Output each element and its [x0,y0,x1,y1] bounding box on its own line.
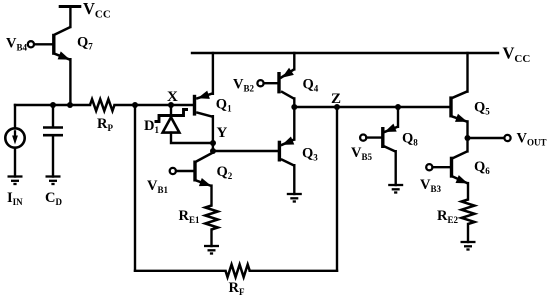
transistor Q4 (PNP) [277,72,280,93]
wire: Q6 emitter to R_E2 [467,183,469,199]
ground (Q8) [388,184,403,186]
ground (I_IN) [8,175,23,177]
node X [168,102,174,108]
transistor Q5 (NPN) [449,96,452,117]
transistor Q8 (PNP) [381,127,384,148]
resistor R_F [226,265,250,278]
wire: Q4 emitter to VCC rail [293,53,295,69]
wire: Q1 emitter up to VCC rail [212,53,214,94]
wire: Q6 collector up to output node [466,138,468,151]
wire: Q1 collector down (node Y) [212,116,214,152]
wire: V_B5 to Q8 base [367,136,382,138]
terminal V_B5 [360,135,366,141]
wire: Q7 collector vertical to VCC bar [69,7,71,28]
wire: Q8 collector to ground [395,151,397,185]
current source I_IN [5,128,24,147]
wire: Q8 emitter up to node Z [397,107,399,127]
ground (R_E1) [204,245,219,247]
node: junction Q7 emitter / input wire [67,102,73,108]
wire: output node to V_OUT terminal [468,137,505,139]
diode D1 (Schottky) [170,105,172,114]
node: Z / Q4-Q3 junction [291,104,297,110]
wire: feedback right vertical to node Z [336,107,338,271]
wire: node Y to Q3 base [213,150,279,152]
svg-text:Z: Z [331,91,341,107]
wire: V_B3 to Q6 base [433,166,450,168]
wire: feedback bottom right [250,270,337,272]
terminal V_B3 [426,164,432,170]
ground (C_D) [46,175,61,177]
svg-text:Y: Y [217,125,228,141]
node Y (Q3 base junction) [210,148,216,154]
transistor Q7 (NPN) [52,34,55,55]
wire: V_B1 to Q2 base [176,170,193,172]
wire: feedback bottom left [135,270,226,272]
wire: R_P to node X to Q1 base [115,104,195,106]
wire: Q5 collector to VCC rail [466,53,468,92]
node Y (D1 junction) [210,140,216,146]
wire: input node horizontal [15,104,90,106]
transistor Q2 (NPN) [193,161,196,182]
terminal V_B4 [28,41,34,47]
wire: D1 anode to node Y [171,133,213,143]
transistor Q6 (NPN) [450,157,453,178]
transistor Q3 (PNP) [278,141,281,162]
node: feedback junction [132,102,138,108]
resistor R_E1 [205,206,218,230]
wire: Q3 emitter up to node Z [293,107,295,140]
wire: Q4 collector to node Z [293,98,295,107]
wire: Q5 emitter to output node [466,121,468,138]
svg-text:X: X [167,89,178,105]
transistor Q1 (PNP) [193,95,196,116]
wire: input node left drop to I_IN [14,105,16,128]
wire: V_B4 to Q7 base [34,43,52,45]
terminal V_B1 [170,168,176,174]
wire: node Z horizontal to Q5 base [294,106,451,108]
wire: V_B2 to Q4 base [264,82,278,84]
ground (Q3) [287,193,302,195]
wire: feedback left vertical [134,105,136,271]
capacitor C_D [52,105,54,127]
terminal V_B2 [257,80,263,86]
wire: Q2 emitter to R_E1 [210,186,212,206]
wire: VCC rail (main) [192,52,498,54]
wire: Q7 emitter down to input node [69,59,71,106]
resistor R_P [90,99,115,111]
node: Z / feedback junction [334,104,340,110]
wire: R_E1 to ground [210,230,212,247]
node: output junction [465,135,471,141]
ground (R_E2) [461,241,476,243]
wire: R_E2 to ground [467,224,469,242]
wire: VCC supply bar top-left (Q7 collector supply) [59,5,82,8]
wire: I_IN to ground [14,148,16,177]
node: junction C_D [50,102,56,108]
terminal V_OUT [504,135,510,141]
resistor R_E2 [462,200,475,225]
wire: Q3 collector to ground [293,165,295,194]
node: Z / Q8 junction [395,104,401,110]
